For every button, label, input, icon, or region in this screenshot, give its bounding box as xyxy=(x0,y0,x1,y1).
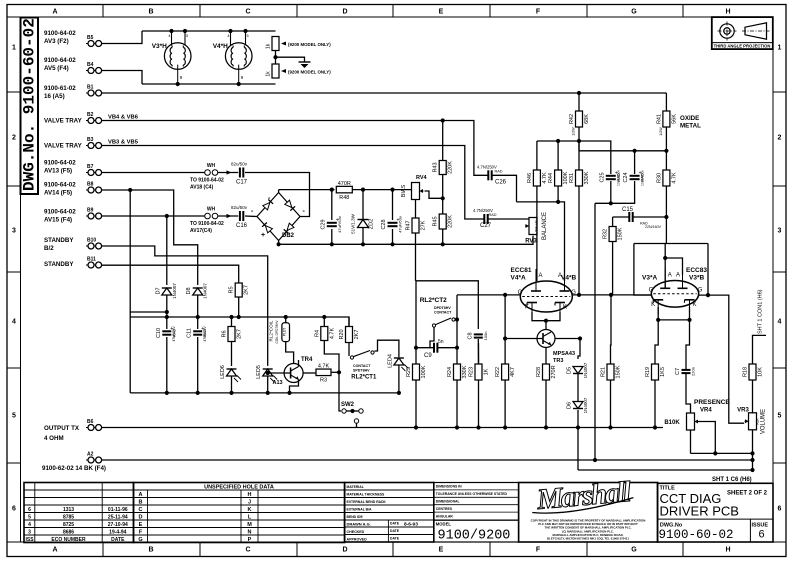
wire R3 node down xyxy=(339,372,341,411)
wire B2 rail xyxy=(102,121,489,176)
svg-text:C28: C28 xyxy=(381,219,387,229)
connector B10 xyxy=(86,238,102,250)
terminal WH pair upper xyxy=(205,170,218,176)
svg-text:ZD2: ZD2 xyxy=(369,219,375,229)
svg-text:C24: C24 xyxy=(623,172,629,182)
resistor R3 xyxy=(316,364,331,384)
capacitor C16 xyxy=(231,205,248,229)
revision table row line xyxy=(24,512,134,514)
grid wire V4A xyxy=(457,294,520,296)
svg-text:2K7: 2K7 xyxy=(237,329,243,339)
projection symbol crosshair xyxy=(718,30,737,32)
svg-text:C: C xyxy=(245,9,250,16)
svg-text:DRAWN A.G.: DRAWN A.G. xyxy=(347,521,371,526)
heater bottom rail xyxy=(142,83,276,85)
wire R28 bottom xyxy=(545,380,547,428)
wire C27 to RV3 xyxy=(488,218,529,220)
svg-text:4.7K: 4.7K xyxy=(542,172,548,184)
svg-text:R45: R45 xyxy=(433,216,439,226)
capacitor C10 xyxy=(156,326,177,338)
connector B8 xyxy=(86,182,102,194)
wire ZD2 bottom xyxy=(362,228,364,245)
junction C24 top xyxy=(633,149,637,153)
svg-text:5n: 5n xyxy=(438,339,444,345)
svg-text:1K: 1K xyxy=(484,368,490,375)
svg-text:150K: 150K xyxy=(618,227,624,240)
anode rail 2 xyxy=(579,150,666,152)
svg-text:A: A xyxy=(676,273,680,279)
capacitor C24 xyxy=(623,170,645,182)
svg-text:68K: 68K xyxy=(584,114,590,124)
wire R18 to VR3 xyxy=(752,380,754,414)
valve heater V4*H xyxy=(213,31,252,84)
svg-text:47uF/63v: 47uF/63v xyxy=(398,216,403,233)
wire LED6 bottom xyxy=(231,376,233,393)
junction rail2 x=324.3 xyxy=(322,315,326,319)
wire R19 bottom xyxy=(654,380,656,428)
svg-text:(9200 MODEL ONLY): (9200 MODEL ONLY) xyxy=(288,42,331,47)
svg-text:56K: 56K xyxy=(671,114,677,124)
junction output bus x=457 xyxy=(455,425,459,429)
svg-text:SHT 1 CON1 (H6): SHT 1 CON1 (H6) xyxy=(758,289,764,334)
wire R30 top xyxy=(665,151,667,170)
svg-text:10uF/450v: 10uF/450v xyxy=(640,170,644,186)
junction R44 top xyxy=(556,139,560,143)
svg-text:5: 5 xyxy=(28,515,31,521)
svg-text:1/2W: 1/2W xyxy=(572,127,576,136)
hole data row line xyxy=(134,512,345,514)
svg-text:STANDBY: STANDBY xyxy=(44,261,74,268)
svg-text:C10: C10 xyxy=(156,328,162,338)
svg-text:MPSA43: MPSA43 xyxy=(553,351,575,357)
wire SW2 link xyxy=(346,410,359,412)
wire ECC83 right side xyxy=(699,244,708,296)
arrow WH C17 xyxy=(227,170,232,174)
wire ECC83 left side xyxy=(634,244,651,296)
wire to ground xyxy=(276,57,305,62)
svg-text:C7: C7 xyxy=(675,368,681,375)
svg-text:CONTACT: CONTACT xyxy=(434,311,452,315)
dimensions row line xyxy=(434,489,519,491)
svg-text:A1K: A1K xyxy=(756,418,760,425)
LED LED4 xyxy=(387,354,408,371)
wire R24 feed xyxy=(456,320,458,365)
dimensions row line xyxy=(434,496,519,498)
connector B1 xyxy=(86,85,102,97)
svg-text:B3: B3 xyxy=(87,137,94,143)
junction anode pin xyxy=(663,256,667,260)
svg-text:2K7: 2K7 xyxy=(244,285,250,295)
standby rail 1 xyxy=(130,311,167,313)
connector B6 xyxy=(86,419,102,431)
svg-text:8785: 8785 xyxy=(63,515,74,521)
svg-text:9100-64-02: 9100-64-02 xyxy=(44,30,76,37)
svg-text:V4*H: V4*H xyxy=(213,43,228,50)
svg-text:CENTRES: CENTRES xyxy=(436,507,453,511)
wire ct2 node xyxy=(455,295,457,320)
junction VR4 wiper xyxy=(713,451,717,455)
svg-text:R4: R4 xyxy=(314,330,320,337)
projection cone axis xyxy=(742,30,770,32)
svg-text:B11: B11 xyxy=(87,257,96,263)
checked row line xyxy=(345,534,434,536)
capacitor C15 xyxy=(622,207,648,226)
svg-text:220K: 220K xyxy=(448,161,454,174)
svg-text:EXTERNAL B/A: EXTERNAL B/A xyxy=(347,507,373,511)
decoupling ground link xyxy=(595,202,635,204)
svg-text:N: N xyxy=(248,530,252,536)
svg-text:AV17(C4): AV17(C4) xyxy=(190,228,212,234)
svg-text:AV18 (C4): AV18 (C4) xyxy=(190,185,214,191)
svg-text:R19: R19 xyxy=(645,367,651,377)
junction rail2 x=197.7 xyxy=(196,315,200,319)
presence pot VR4 B10K xyxy=(687,413,699,430)
svg-text:4K7: 4K7 xyxy=(510,367,516,377)
diode D6 xyxy=(567,397,589,413)
svg-text:V3*A: V3*A xyxy=(642,275,657,282)
svg-text:EXTERNAL BEND RADII: EXTERNAL BEND RADII xyxy=(347,500,386,504)
svg-text:G: G xyxy=(631,9,637,16)
hole data row line xyxy=(134,504,345,506)
line A2 xyxy=(102,459,753,461)
wire rail to R44 xyxy=(557,141,559,170)
junction C29 top xyxy=(330,188,334,192)
resistor R32 xyxy=(603,227,624,242)
svg-text:RV4: RV4 xyxy=(416,175,428,181)
projection symbol inner circle xyxy=(724,28,730,34)
svg-text:D6: D6 xyxy=(567,402,573,409)
heater rail junction xyxy=(243,29,247,33)
hole data col line 1 xyxy=(147,490,149,543)
wire D6 to sht line xyxy=(577,428,579,471)
svg-text:B9: B9 xyxy=(87,208,94,214)
junction C15 node xyxy=(664,215,668,219)
svg-text:DPDT8HV: DPDT8HV xyxy=(434,306,451,310)
wire WH to C17 xyxy=(218,172,238,174)
hole data row line xyxy=(134,527,345,529)
junction K right xyxy=(687,318,691,322)
junction ECC83 right grid xyxy=(706,293,710,297)
svg-text:B: B xyxy=(148,9,153,16)
svg-text:DATE: DATE xyxy=(390,529,400,533)
svg-text:47UF/25V: 47UF/25V xyxy=(203,326,207,342)
svg-text:82u/50v: 82u/50v xyxy=(231,162,248,167)
wire R6 top xyxy=(231,317,233,327)
relay contact RL2*CT1 xyxy=(350,351,370,360)
wire ECC83 cathodes xyxy=(658,307,689,320)
hole data col line 2 xyxy=(240,490,242,543)
svg-text:150K: 150K xyxy=(616,365,622,378)
svg-text:MATERIAL: MATERIAL xyxy=(347,485,364,489)
screen rail xyxy=(537,141,611,174)
wire R43 to R45 xyxy=(442,175,444,215)
svg-text:16 (A5): 16 (A5) xyxy=(44,93,65,100)
svg-text:V3*B: V3*B xyxy=(689,275,704,282)
junction D5 node xyxy=(578,336,582,340)
materials row line xyxy=(345,512,434,514)
svg-text:RV3: RV3 xyxy=(525,239,537,245)
svg-text:RL2*COIL: RL2*COIL xyxy=(269,320,274,341)
row tick left xyxy=(7,271,21,273)
contact terminal ct1 xyxy=(371,351,374,354)
contact terminal ct2 xyxy=(452,318,455,321)
column tick bottom xyxy=(102,542,104,557)
row tick right xyxy=(773,271,786,273)
wire R4 bottom xyxy=(324,341,339,373)
svg-text:E: E xyxy=(439,547,444,554)
resistor R19 xyxy=(645,364,666,380)
junction 1k midpoint xyxy=(273,55,277,59)
wire RV4 to R47 xyxy=(415,200,417,219)
svg-text:A2: A2 xyxy=(87,452,94,458)
svg-text:47UF/25V: 47UF/25V xyxy=(172,326,176,342)
wire B9 branch to D7 xyxy=(166,216,168,285)
junction vol 453 xyxy=(750,451,754,455)
junction R41 bottom xyxy=(664,149,668,153)
svg-text:DRIVER PCB: DRIVER PCB xyxy=(660,504,739,519)
wire R20 bottom xyxy=(348,343,350,357)
materials row line xyxy=(345,519,434,521)
svg-text:RAD: RAD xyxy=(495,170,503,174)
capacitor C17 xyxy=(231,162,248,186)
junction bus x=267.7 xyxy=(266,391,270,395)
wire C10 bottom xyxy=(166,337,168,393)
wire grid out xyxy=(708,295,744,423)
junction rail1 d7 xyxy=(165,310,169,314)
wire C28 bottom xyxy=(392,229,394,244)
svg-text:330K: 330K xyxy=(584,171,590,184)
svg-text:4: 4 xyxy=(28,522,31,528)
svg-text:9100-60-02: 9100-60-02 xyxy=(659,528,734,542)
junction RV4 wiper xyxy=(441,196,445,200)
junction vol 460 xyxy=(750,458,754,462)
capacitor C26 xyxy=(477,165,507,186)
bridge rectifier DB2 xyxy=(251,193,306,241)
column tick bottom xyxy=(682,542,684,557)
svg-text:B: B xyxy=(148,547,153,554)
dimensions col outline xyxy=(434,483,519,521)
row tick right xyxy=(773,367,786,369)
junction bus x=289.5 xyxy=(287,391,291,395)
svg-text:8-6-93: 8-6-93 xyxy=(404,522,418,528)
resistor R42 xyxy=(569,111,590,127)
svg-text:BALANCE: BALANCE xyxy=(542,212,548,240)
wire D8 bottom xyxy=(197,295,199,317)
svg-text:R25: R25 xyxy=(406,367,412,377)
svg-text:LED5: LED5 xyxy=(256,365,262,379)
svg-text:R5: R5 xyxy=(229,286,235,293)
svg-text:RAD: RAD xyxy=(489,213,497,217)
wire D7 bottom xyxy=(166,295,168,317)
heater rail junction xyxy=(183,29,187,33)
junction vol 470 xyxy=(750,468,754,472)
diode D8 xyxy=(186,283,208,299)
wire D6 bottom xyxy=(577,410,579,428)
junction B2 R43 xyxy=(441,118,445,122)
svg-text:PRESENCE: PRESENCE xyxy=(694,399,730,406)
resistor R46 xyxy=(527,170,548,186)
svg-text:SHEET 2 OF 2: SHEET 2 OF 2 xyxy=(727,491,768,497)
svg-text:AV5 (F4): AV5 (F4) xyxy=(44,65,69,72)
resistor 1k upper (9200 model) xyxy=(272,37,279,51)
connector B5 xyxy=(86,35,102,47)
projection symbol cone xyxy=(745,23,767,39)
junction rail2 x=231.5 xyxy=(229,315,233,319)
switch SW2 terminal 3 xyxy=(354,419,358,423)
svg-text:G: G xyxy=(138,537,142,543)
junction rail2 x=166.8 xyxy=(165,315,169,319)
svg-text:SW2: SW2 xyxy=(341,402,355,408)
hole data table outline xyxy=(134,483,345,543)
svg-text:R32: R32 xyxy=(603,229,609,239)
svg-text:9100/9200: 9100/9200 xyxy=(438,529,511,544)
svg-text:DATE: DATE xyxy=(390,537,400,541)
hole data header sep xyxy=(134,489,345,491)
row tick left xyxy=(7,462,21,464)
svg-text:AV15 (F4): AV15 (F4) xyxy=(44,217,72,224)
column tick bottom xyxy=(199,542,201,557)
svg-text:B6: B6 xyxy=(87,419,94,425)
svg-text:R23: R23 xyxy=(469,367,475,377)
junction R44 bottom xyxy=(556,200,560,204)
wire K left to R19 xyxy=(655,320,658,364)
junction K left xyxy=(656,318,660,322)
svg-text:1N4007: 1N4007 xyxy=(583,397,588,413)
wire C10 top xyxy=(166,317,168,329)
column tick top xyxy=(102,5,104,18)
junction output bus x=578 xyxy=(576,425,580,429)
svg-text:R22: R22 xyxy=(495,367,501,377)
heater bottom junction V4H xyxy=(237,82,241,86)
diode D7 xyxy=(155,283,177,299)
wire C9 left xyxy=(416,347,434,349)
revision table col line 2 xyxy=(101,483,103,543)
wire ct2 pivot down xyxy=(430,327,434,348)
left label band line xyxy=(20,17,22,542)
svg-text:APPROVED: APPROVED xyxy=(347,537,368,541)
svg-text:1N4007: 1N4007 xyxy=(583,362,588,378)
sht1 c6 line xyxy=(578,469,753,471)
resistor R4 xyxy=(314,327,335,341)
junction C25 bottom xyxy=(609,201,613,205)
svg-text:DATE: DATE xyxy=(390,522,400,526)
resistor R30 xyxy=(656,170,677,186)
svg-text:VR4: VR4 xyxy=(700,408,712,414)
svg-text:1k: 1k xyxy=(266,71,272,77)
wire ZD2 top xyxy=(362,190,364,219)
materials row line xyxy=(345,489,434,491)
wire coil top xyxy=(285,317,287,323)
svg-text:100n: 100n xyxy=(483,332,488,341)
svg-text:C25: C25 xyxy=(599,172,605,182)
wire R32 top xyxy=(612,217,614,226)
svg-text:4.7K: 4.7K xyxy=(671,172,677,184)
projection symbol circle xyxy=(720,24,734,38)
revision table row line xyxy=(24,489,134,491)
wire B4 to heater bottom rail xyxy=(102,71,142,85)
wire coil bottom xyxy=(286,342,294,364)
svg-text:1313: 1313 xyxy=(63,507,74,513)
column tick top xyxy=(682,5,684,18)
svg-text:V4*A: V4*A xyxy=(511,275,526,282)
svg-text:B2: B2 xyxy=(87,112,94,118)
svg-text:BLETCHLEY, MILTON KEYNES MK1 1: BLETCHLEY, MILTON KEYNES MK1 1DQ. TEL 01… xyxy=(547,537,629,541)
wire C9 right xyxy=(437,347,457,349)
junction R32 grid xyxy=(609,293,613,297)
svg-text:470R: 470R xyxy=(338,181,351,187)
relay contact RL2*CT2 xyxy=(432,318,451,327)
TR4 emitter xyxy=(290,380,299,393)
heater top rail xyxy=(142,30,276,32)
resistor R23 xyxy=(469,364,490,380)
svg-text:A: A xyxy=(539,273,543,279)
wire C29 top xyxy=(331,190,333,220)
resistor R6 xyxy=(222,327,243,342)
junction output bus x=416 xyxy=(414,425,418,429)
revision table col line 1 xyxy=(34,483,36,543)
svg-text:9100-64-02: 9100-64-02 xyxy=(44,160,76,167)
svg-text:8725: 8725 xyxy=(63,522,74,528)
junction output bus x=478.5 xyxy=(476,425,480,429)
svg-text:DIMENSIONS IN: DIMENSIONS IN xyxy=(436,485,462,489)
junction R3 node xyxy=(337,370,341,374)
wire bridge top to HT rail xyxy=(278,190,280,193)
svg-text:1/2W: 1/2W xyxy=(659,127,663,136)
projection caption line xyxy=(712,42,773,44)
diode D5 xyxy=(567,362,589,378)
cathode join ECC81 xyxy=(532,312,560,321)
svg-text:G: G xyxy=(649,287,654,293)
wire LED5 bottom xyxy=(267,376,269,393)
svg-text:B1: B1 xyxy=(87,85,94,91)
wire RV4 wiper xyxy=(425,191,443,198)
wire B11 to R5 xyxy=(102,265,239,282)
svg-text:1: 1 xyxy=(12,45,16,52)
svg-text:R20: R20 xyxy=(339,329,345,339)
wire B9 to WH xyxy=(102,215,205,217)
column tick bottom xyxy=(586,542,588,557)
volume pot VR3 xyxy=(745,413,757,430)
svg-text:AV3 (F2): AV3 (F2) xyxy=(44,38,69,45)
svg-text:RL2*CT2: RL2*CT2 xyxy=(420,297,447,304)
terminal WH pair lower xyxy=(205,213,218,219)
resistor R41 xyxy=(656,111,677,127)
svg-text:SHT 1 C6 (H6): SHT 1 C6 (H6) xyxy=(712,477,752,483)
switch SW2 terminal 2 xyxy=(359,409,363,413)
svg-text:UNSPECIFIED HOLE DATA: UNSPECIFIED HOLE DATA xyxy=(204,484,274,490)
resistor R18 xyxy=(743,364,764,380)
junction ZD2 top xyxy=(361,188,365,192)
LED LED5 xyxy=(256,365,277,382)
wire R3 right xyxy=(331,371,339,373)
arrow WH C16 xyxy=(227,214,232,218)
svg-text:D8: D8 xyxy=(186,287,192,294)
column tick top xyxy=(586,5,588,18)
heater rail junction xyxy=(169,29,173,33)
column tick top xyxy=(199,5,201,18)
svg-text:6: 6 xyxy=(759,529,765,541)
svg-text:D7: D7 xyxy=(155,287,161,294)
resistor R20 xyxy=(339,327,360,343)
junction bus x=231.5 xyxy=(229,391,233,395)
svg-text:OXIDE: OXIDE xyxy=(680,115,699,122)
svg-text:LED6: LED6 xyxy=(220,365,226,379)
svg-text:C29: C29 xyxy=(320,219,326,229)
anode top rail ECC83 xyxy=(634,243,708,245)
svg-text:6: 6 xyxy=(12,506,16,513)
transistor TR4 xyxy=(284,364,303,383)
resistor R5 xyxy=(229,283,250,297)
